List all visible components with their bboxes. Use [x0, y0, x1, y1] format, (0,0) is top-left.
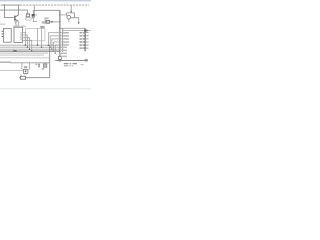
node dot: [51, 49, 52, 50]
plus mark: [36, 14, 37, 15]
buzzer LS1: [67, 15, 71, 19]
text note row1: [64, 63, 77, 64]
wire: [32, 10, 34, 14]
wire: [33, 17, 35, 19]
wire bottom left dark: [0, 61, 11, 63]
bus wire dark: [0, 50, 60, 52]
bus wire: [0, 54, 44, 56]
wire: [60, 27, 85, 29]
label: [36, 64, 38, 66]
node dot: [31, 50, 32, 51]
wire: [28, 63, 30, 70]
junction blob: [13, 50, 16, 52]
wire vertical right dark: [59, 10, 61, 61]
wire: [26, 77, 50, 79]
bus wire: [0, 44, 60, 46]
pin wire: [23, 35, 28, 47]
pin text band: [20, 32, 22, 41]
label U1: [13, 26, 20, 28]
ic U2 box faint: [26, 28, 45, 40]
wire: [68, 19, 70, 22]
node dot: [4, 4, 5, 5]
wire: [17, 21, 19, 27]
node dot: [50, 47, 51, 48]
wire stub: [44, 17, 46, 24]
page border bottom: [0, 88, 91, 89]
wire: [5, 5, 14, 18]
node dot: [27, 47, 28, 48]
node dot: [59, 60, 61, 62]
label U1b: [21, 26, 25, 28]
bus wire: [0, 48, 60, 50]
node dot: [59, 21, 60, 22]
wire: [15, 24, 17, 27]
node dot: [25, 45, 26, 46]
wire: [33, 5, 35, 14]
ic U1 box: [14, 27, 23, 42]
node dot: [53, 50, 54, 51]
bus wire faint: [0, 57, 50, 59]
wire: [37, 28, 39, 45]
label: [46, 18, 49, 19]
wire faint: [0, 69, 24, 71]
component blob: [85, 59, 88, 61]
wire: [60, 14, 67, 16]
wire: [17, 5, 19, 15]
wire: [0, 23, 5, 25]
diode D3 body: [38, 64, 40, 66]
page border top: [0, 0, 91, 1]
wire: [15, 21, 17, 25]
label: [20, 75, 21, 76]
conn pin stubs: [85, 33, 89, 48]
wire VCC rail right: [20, 4, 89, 6]
transistor Q1: [15, 15, 19, 21]
connector J1 spine: [84, 28, 86, 51]
wire rail2 left: [0, 9, 28, 11]
diode D3 bar: [38, 66, 40, 68]
node dot: [55, 52, 56, 53]
wire: [70, 5, 72, 13]
pin wire: [23, 38, 30, 50]
wire: [27, 10, 29, 14]
node dot: [59, 14, 60, 15]
net labels right of bus verticals: [63, 32, 69, 46]
wire: [45, 21, 60, 23]
node dot: [29, 49, 30, 50]
wire: [74, 13, 76, 18]
label U2: [40, 26, 44, 28]
label K1: [24, 66, 27, 68]
text note row2: [64, 65, 73, 66]
resonator Y2 box: [46, 20, 49, 23]
ic U3 box: [3, 29, 11, 43]
cap C1 legs: [26, 17, 28, 19]
wire: [21, 63, 23, 70]
capacitor C1: [26, 14, 29, 17]
node dot: [41, 47, 42, 48]
wire rail2 right: [33, 9, 60, 11]
wire: [33, 17, 37, 22]
net labels: [61, 47, 67, 58]
component blob: [84, 30, 88, 32]
bead FB1 on vertical: [58, 56, 61, 59]
conn pin labels: [80, 32, 85, 49]
pin: [2, 33, 4, 35]
pin: [2, 30, 4, 32]
arrow: [78, 22, 80, 24]
stair wires: [48, 33, 55, 53]
pin: [2, 36, 4, 38]
wire vertical right2: [62, 28, 64, 52]
wire: [66, 13, 68, 16]
diode D3: [38, 63, 40, 65]
label Q1: [14, 21, 19, 23]
conn wires rows: [48, 33, 62, 45]
wire: [41, 28, 43, 47]
wire VCC rail: [1, 4, 20, 6]
label under X2: [41, 68, 44, 69]
relay legs: [23, 73, 25, 74]
label near U2: [42, 21, 45, 23]
label faint: [80, 64, 84, 65]
fuse lead: [19, 77, 21, 79]
wire: [31, 17, 33, 19]
bridge X2 cross: [43, 64, 46, 67]
diode D2: [51, 21, 53, 23]
node dot: [71, 11, 72, 12]
wire bottom left: [11, 62, 50, 64]
node dot: [59, 28, 60, 29]
page border top light: [0, 0, 91, 3]
node dot: [48, 44, 50, 46]
capacitor C2: [32, 14, 35, 17]
wire: [67, 12, 75, 14]
relay inner mark: [25, 71, 27, 73]
cap C1 bottom outline: [25, 18, 31, 21]
relay K1 box: [24, 69, 28, 73]
wire: [71, 18, 79, 23]
bus wire: [0, 52, 48, 54]
bridge X2 box: [43, 64, 46, 67]
wire: [63, 30, 91, 32]
node dot: [37, 45, 38, 46]
bus wire: [0, 46, 63, 48]
pin wire: [23, 32, 26, 45]
wire vertical mid: [49, 45, 51, 78]
wire jog: [10, 61, 12, 64]
pin wire: [23, 40, 32, 51]
wire bottom right: [55, 60, 86, 62]
fuse F1 box: [20, 76, 25, 79]
